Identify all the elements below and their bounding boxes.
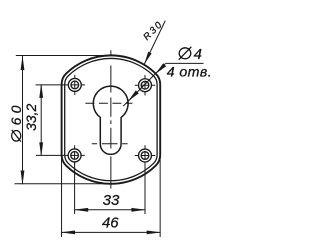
horizontal centerline of keyhole circle	[85, 102, 132, 104]
arrowhead bottom	[21, 171, 25, 186]
screw hole bottom-left	[64, 145, 84, 165]
leader line through screw hole to keyhole	[123, 64, 165, 107]
svg-text:33: 33	[103, 192, 120, 209]
extension lines for 46 (plate sides)	[61, 157, 63, 237]
arrowhead on arc	[144, 52, 151, 65]
screw hole bottom-right	[135, 145, 155, 165]
screw hole top-left	[65, 75, 85, 95]
dimension line dia60	[22, 56, 24, 184]
dimension 33.2	[23, 83, 43, 157]
leader shelf	[165, 62, 203, 64]
svg-text:4 отв.: 4 отв.	[167, 64, 212, 80]
arrowhead left	[74, 208, 89, 212]
svg-text:4: 4	[194, 46, 202, 63]
extension line bottom (for dia 60)	[15, 183, 113, 185]
arrowhead right	[131, 208, 146, 212]
extension line hole row bottom (for 33.2)	[36, 154, 64, 156]
extension line top (for dia 60)	[16, 55, 112, 57]
diameter symbol of dia60	[12, 130, 21, 141]
svg-text:60: 60	[8, 101, 24, 125]
arrowhead at keyhole circle	[128, 90, 139, 101]
svg-text:33,2: 33,2	[23, 103, 39, 130]
screw hole top-right	[135, 75, 155, 95]
dimension line 46	[62, 231, 161, 233]
arrowhead right	[147, 231, 162, 235]
arrowhead left	[60, 231, 75, 235]
plate outer outline	[62, 55, 161, 183]
leader line R30	[144, 21, 165, 65]
dimension 46	[60, 215, 161, 235]
arrowhead top	[21, 56, 25, 71]
arrowhead at plate edge	[156, 63, 167, 74]
center mark of keyhole bottom radius	[92, 143, 128, 145]
svg-text:46: 46	[102, 215, 119, 232]
extension line hole row top (for 33.2)	[36, 84, 65, 86]
arrowhead bottom	[39, 142, 43, 157]
leader dia 4, 4 holes	[123, 46, 212, 106]
leader R30	[141, 19, 165, 65]
arrowhead top	[39, 83, 43, 98]
plate inner outline (bevel)	[65, 58, 157, 180]
dimension dia 60	[8, 56, 24, 186]
dimension line 33.2	[40, 85, 42, 155]
keyhole cylinder profile cutout	[93, 86, 128, 154]
vertical centerline	[110, 50, 112, 188]
extension lines for 33 (from bottom holes)	[74, 162, 76, 214]
dimension line 33	[75, 209, 145, 211]
dimension 33	[74, 192, 146, 212]
